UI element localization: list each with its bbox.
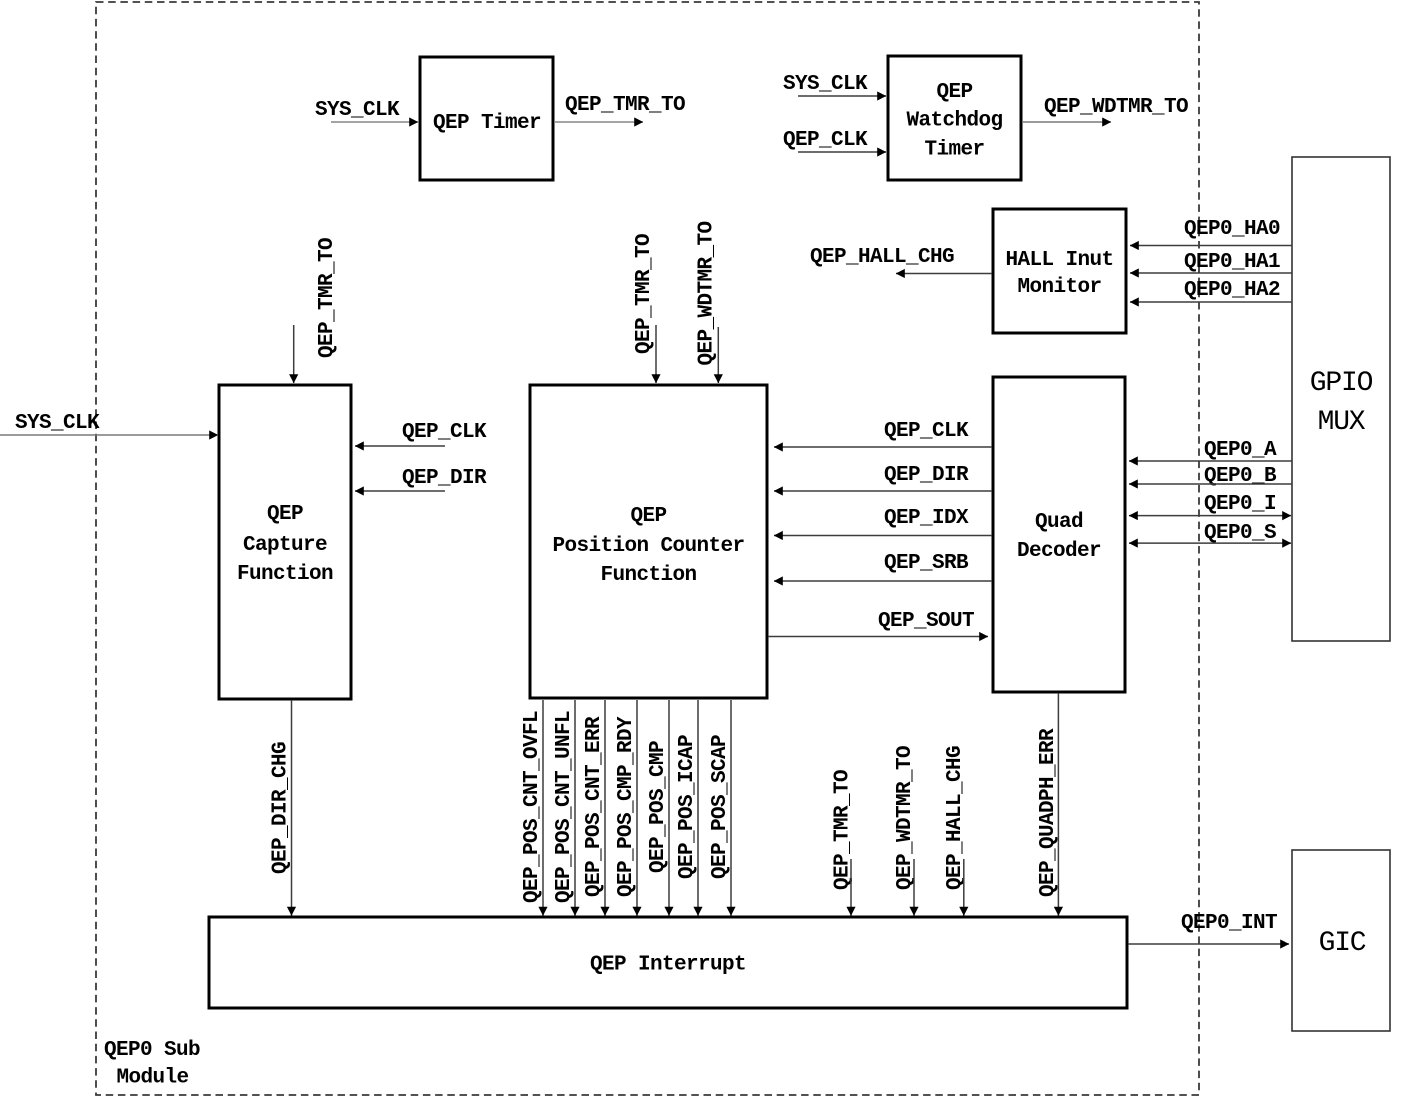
svg-text:QEP0_HA0: QEP0_HA0 [1184, 218, 1280, 241]
wire QEP_CLK Quad to Position Counter [774, 420, 992, 447]
svg-text:Module: Module [117, 1067, 189, 1090]
svg-text:QEP_TMR_TO: QEP_TMR_TO [316, 238, 339, 358]
wire QEP_POS_CNT_ERR to Interrupt [583, 700, 606, 916]
svg-text:Timer: Timer [924, 139, 984, 162]
svg-text:Decoder: Decoder [1017, 540, 1101, 563]
svg-text:QEP_POS_CNT_UNFL: QEP_POS_CNT_UNFL [553, 711, 576, 903]
svg-text:QEP_WDTMR_TO: QEP_WDTMR_TO [696, 221, 719, 365]
svg-text:QEP_POS_ICAP: QEP_POS_ICAP [676, 735, 699, 879]
block QEP Timer [420, 57, 553, 180]
svg-text:QEP_QUADPH_ERR: QEP_QUADPH_ERR [1037, 728, 1060, 897]
wire QEP0_I bidirectional Quad / GPIO [1129, 493, 1291, 516]
wire QEP_DIR Quad to Position Counter [774, 464, 992, 491]
dashed module boundary QEP0 Sub Module [96, 2, 1199, 1095]
svg-text:QEP0_HA1: QEP0_HA1 [1184, 251, 1280, 274]
wire QEP0_HA2 GPIO to HALL [1130, 279, 1292, 302]
svg-text:QEP_SRB: QEP_SRB [884, 552, 969, 575]
wire QEP_WDTMR_TO out of Watchdog [1022, 96, 1188, 122]
wire QEP_DIR_CHG Capture to Interrupt [270, 700, 293, 916]
block HALL Inut Monitor [993, 209, 1126, 333]
svg-text:QEP: QEP [630, 505, 666, 528]
wire QEP0_HA1 GPIO to HALL [1130, 251, 1292, 274]
svg-text:QEP_POS_CNT_OVFL: QEP_POS_CNT_OVFL [521, 711, 544, 903]
wire QEP_POS_CNT_UNFL to Interrupt [553, 700, 576, 916]
wire QEP_HALL_CHG out of HALL monitor [810, 246, 992, 274]
svg-text:QEP_POS_CNT_ERR: QEP_POS_CNT_ERR [583, 716, 606, 897]
wire QEP_TMR_TO down into Capture [294, 238, 339, 383]
wire QEP_SOUT Position Counter to Quad [768, 610, 988, 637]
svg-text:QEP_HALL_CHG: QEP_HALL_CHG [810, 246, 954, 269]
block Quad Decoder [993, 377, 1125, 692]
wire SYS_CLK into Capture [0, 412, 218, 435]
svg-text:QEP_WDTMR_TO: QEP_WDTMR_TO [1044, 96, 1188, 119]
svg-text:QEP_POS_SCAP: QEP_POS_SCAP [709, 735, 732, 879]
svg-text:QEP_TMR_TO: QEP_TMR_TO [565, 94, 685, 117]
block QEP Capture Function [219, 385, 351, 699]
svg-text:Function: Function [237, 563, 333, 586]
wire QEP0_HA0 GPIO to HALL [1130, 218, 1292, 246]
wire QEP_CLK into Capture [355, 421, 487, 446]
svg-text:Watchdog: Watchdog [906, 110, 1002, 133]
wire QEP0_S bidirectional Quad / GPIO [1129, 522, 1291, 545]
block GIC [1292, 850, 1390, 1031]
svg-text:QEP0_S: QEP0_S [1204, 522, 1276, 545]
wire QEP_TMR_TO out of QEP Timer [554, 94, 685, 122]
block QEP Watchdog Timer [888, 56, 1021, 180]
svg-text:SYS_CLK: SYS_CLK [315, 99, 400, 122]
svg-text:QEP0_HA2: QEP0_HA2 [1184, 279, 1280, 302]
block QEP Interrupt [209, 917, 1127, 1008]
svg-text:QEP0_A: QEP0_A [1204, 439, 1277, 462]
svg-text:SYS_CLK: SYS_CLK [15, 412, 100, 435]
wire QEP_POS_SCAP to Interrupt [709, 700, 732, 916]
svg-text:Capture: Capture [243, 534, 327, 557]
svg-text:Quad: Quad [1035, 511, 1083, 534]
wire QEP_POS_CNT_OVFL to Interrupt [521, 700, 544, 916]
svg-text:Monitor: Monitor [1017, 276, 1101, 299]
svg-text:GIC: GIC [1319, 928, 1366, 959]
wire QEP_POS_CMP_RDY to Interrupt [615, 700, 638, 916]
label QEP0 Sub Module [104, 1039, 200, 1090]
wire QEP_DIR into Capture [355, 467, 487, 491]
wire QEP_HALL_CHG to Interrupt [944, 746, 967, 916]
block QEP Position Counter Function [530, 385, 767, 698]
wire QEP_CLK into Watchdog [783, 129, 886, 152]
svg-text:QEP: QEP [267, 503, 303, 526]
wire QEP_WDTMR_TO to Interrupt [894, 746, 917, 916]
wire SYS_CLK into QEP Timer [315, 99, 418, 122]
wire QEP0_A GPIO to Quad [1129, 439, 1292, 462]
svg-text:GPIO: GPIO [1310, 368, 1373, 399]
svg-text:QEP_IDX: QEP_IDX [884, 507, 969, 530]
wire QEP0_B GPIO to Quad [1129, 465, 1292, 488]
svg-text:QEP_DIR: QEP_DIR [884, 464, 969, 487]
svg-text:QEP_DIR_CHG: QEP_DIR_CHG [270, 742, 293, 874]
block GPIO MUX [1292, 157, 1390, 641]
wire QEP_QUADPH_ERR Quad to Interrupt [1037, 693, 1060, 916]
svg-text:QEP0_INT: QEP0_INT [1181, 912, 1277, 935]
svg-text:QEP_CLK: QEP_CLK [783, 129, 868, 152]
wire QEP_TMR_TO down into Position Counter [633, 234, 656, 383]
svg-text:QEP: QEP [936, 81, 972, 104]
svg-text:QEP0 Sub: QEP0 Sub [104, 1039, 200, 1062]
svg-text:Function: Function [600, 564, 696, 587]
wire SYS_CLK into Watchdog [783, 73, 886, 96]
wire QEP_IDX Quad to Position Counter [774, 507, 992, 536]
svg-text:MUX: MUX [1318, 407, 1366, 438]
svg-text:Position Counter: Position Counter [552, 535, 744, 558]
svg-text:QEP Timer: QEP Timer [433, 112, 541, 135]
svg-text:QEP_CLK: QEP_CLK [884, 420, 969, 443]
wire QEP0_INT Interrupt to GIC [1128, 912, 1289, 944]
wire QEP_WDTMR_TO down into Position Counter [696, 221, 719, 383]
wire QEP_POS_CMP to Interrupt [647, 700, 670, 916]
svg-text:SYS_CLK: SYS_CLK [783, 73, 868, 96]
svg-text:QEP Interrupt: QEP Interrupt [590, 954, 746, 977]
wire QEP_SRB Quad to Position Counter [774, 552, 992, 581]
wire QEP_POS_ICAP to Interrupt [676, 700, 699, 916]
wire QEP_TMR_TO to Interrupt [832, 770, 855, 916]
svg-text:QEP_DIR: QEP_DIR [402, 467, 487, 490]
svg-text:QEP_POS_CMP: QEP_POS_CMP [647, 741, 670, 873]
svg-text:HALL Inut: HALL Inut [1005, 249, 1113, 272]
svg-text:QEP_POS_CMP_RDY: QEP_POS_CMP_RDY [615, 716, 638, 897]
svg-text:QEP_SOUT: QEP_SOUT [878, 610, 974, 633]
svg-text:QEP_CLK: QEP_CLK [402, 421, 487, 444]
svg-text:QEP0_I: QEP0_I [1204, 493, 1276, 516]
svg-text:QEP_TMR_TO: QEP_TMR_TO [633, 234, 656, 354]
